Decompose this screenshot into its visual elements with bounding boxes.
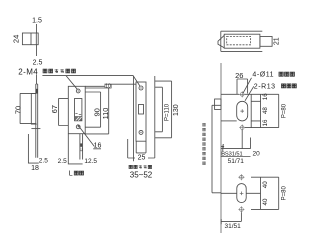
cross tick xyxy=(31,128,40,130)
latch bolt in slot xyxy=(75,113,82,116)
dim 70 bracket xyxy=(20,93,36,123)
latch bolt rect xyxy=(22,33,38,45)
svg-text:18: 18 xyxy=(31,165,39,172)
svg-text:2.5: 2.5 xyxy=(58,158,67,165)
svg-text:4: 4 xyxy=(221,144,224,150)
svg-text:40: 40 xyxy=(262,181,269,188)
svg-text:16: 16 xyxy=(262,119,269,126)
center drop line xyxy=(241,130,243,149)
svg-text:P=110: P=110 xyxy=(164,103,170,121)
svg-text:67: 67 xyxy=(50,105,59,113)
door thickness dim line xyxy=(128,157,155,159)
screw hole bottom xyxy=(139,130,143,134)
drop line xyxy=(240,212,242,221)
door edge line xyxy=(220,63,222,233)
leader lines xyxy=(243,78,254,101)
door min-thickness line xyxy=(127,139,129,158)
second dim line xyxy=(221,156,251,158)
latch bolt wedge xyxy=(218,35,224,47)
handle center line xyxy=(221,192,261,194)
hidden outline xyxy=(227,36,251,44)
P=80 bracket xyxy=(278,94,280,127)
16 leader xyxy=(78,125,102,149)
door near face line xyxy=(133,76,135,162)
svg-text:40: 40 xyxy=(262,198,269,205)
screw hole top xyxy=(139,86,143,90)
dim 67 bracket xyxy=(59,98,69,125)
P=80 bracket lower xyxy=(278,177,280,209)
svg-text:25: 25 xyxy=(138,155,146,162)
face plate block xyxy=(260,37,272,47)
svg-text:L: L xyxy=(69,170,73,177)
door far face line xyxy=(154,76,156,158)
L-dim bracket xyxy=(68,134,82,164)
dim 130 bracket xyxy=(155,81,172,138)
tail tube xyxy=(80,134,83,160)
svg-text:20: 20 xyxy=(253,150,261,157)
BS dim line xyxy=(221,138,251,152)
dim 18 bracket xyxy=(28,134,38,163)
hole center mark 1 xyxy=(239,91,245,97)
dim P=110 bracket xyxy=(155,87,162,132)
svg-text:P=80: P=80 xyxy=(282,186,288,201)
svg-text:21: 21 xyxy=(274,37,281,45)
対応ドア厚 label xyxy=(129,165,132,168)
oval 1 center cross xyxy=(240,109,244,113)
plate xyxy=(68,86,85,133)
center line to hole xyxy=(221,93,239,95)
svg-text:48: 48 xyxy=(262,107,269,114)
dim 26 lines xyxy=(237,79,248,94)
hole center mark 4 xyxy=(238,206,244,212)
latch slot xyxy=(75,99,82,121)
svg-text:2.5: 2.5 xyxy=(39,157,48,164)
hole center mark 3 xyxy=(238,174,244,180)
hole center mark 2 xyxy=(239,125,245,131)
dim lines 16/48/16 xyxy=(245,94,279,127)
oval 2 center cross xyxy=(240,192,244,196)
svg-text:1.5: 1.5 xyxy=(32,18,42,25)
svg-text:110: 110 xyxy=(101,108,110,120)
screw hole bottom xyxy=(76,125,80,129)
hub square xyxy=(139,105,144,115)
svg-text:24: 24 xyxy=(11,35,20,43)
svg-text:10: 10 xyxy=(105,84,111,90)
dim 110 bracket xyxy=(85,86,109,134)
handle pitch bracket xyxy=(212,105,221,193)
svg-text:P=80: P=80 xyxy=(282,103,288,118)
plate edge lines xyxy=(36,75,38,158)
svg-text:4-Ø11: 4-Ø11 xyxy=(252,71,274,78)
tail detail xyxy=(80,143,82,146)
svg-text:2-R13: 2-R13 xyxy=(254,84,276,91)
oval hole 1 xyxy=(237,101,248,121)
svg-text:2-M4: 2-M4 xyxy=(18,67,38,76)
svg-text:51/71: 51/71 xyxy=(228,158,245,165)
svg-text:16: 16 xyxy=(262,93,269,100)
case profile xyxy=(31,93,37,124)
extension line xyxy=(36,24,38,56)
svg-text:70: 70 xyxy=(13,106,22,114)
thick segment xyxy=(36,89,38,94)
svg-text:12.5: 12.5 xyxy=(84,158,97,165)
svg-text:31/51: 31/51 xyxy=(225,223,242,230)
screw hole top xyxy=(76,89,80,93)
case plate xyxy=(136,82,146,141)
dim lines 40/40 xyxy=(251,177,279,209)
case body xyxy=(224,34,260,48)
dim 90 bracket xyxy=(85,92,100,127)
line oval bottom to door xyxy=(221,120,237,122)
svg-text:2.5: 2.5 xyxy=(33,60,43,67)
svg-text:35~52: 35~52 xyxy=(130,170,153,179)
dim 25 bracket xyxy=(136,141,146,153)
svg-text:130: 130 xyxy=(173,104,180,116)
ハンドルの縦ピッチ vertical label xyxy=(202,123,205,126)
lock case side box xyxy=(215,99,221,110)
kanji 皿小ネジ用穴 xyxy=(43,69,47,73)
leader line xyxy=(42,76,139,90)
oval hole 2 xyxy=(237,184,246,203)
31/51 dim line xyxy=(221,219,241,224)
dim 10 lines xyxy=(105,83,112,88)
divider xyxy=(31,33,36,45)
svg-text:16: 16 xyxy=(94,143,102,150)
door edge lines xyxy=(221,31,262,51)
